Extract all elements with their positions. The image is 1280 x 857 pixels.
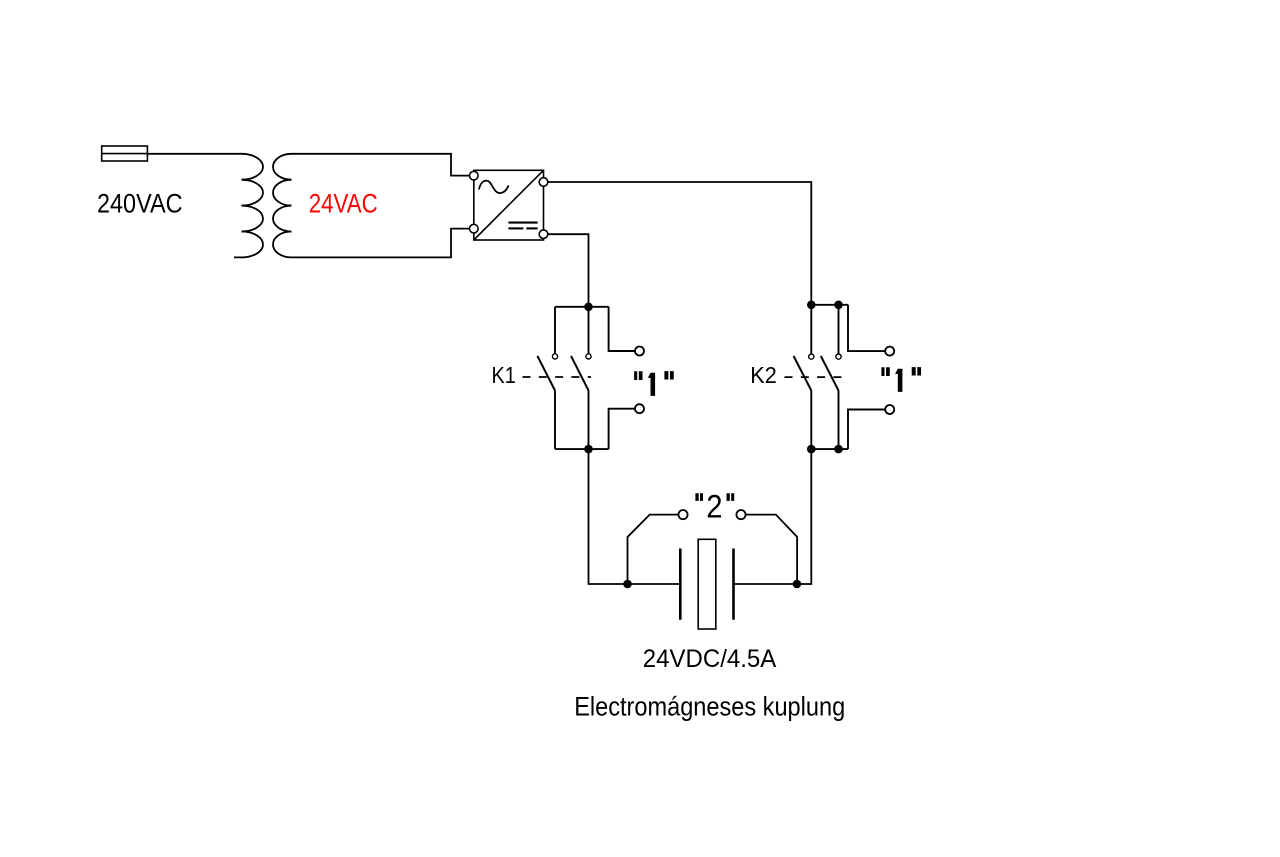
- wire secondary top to rectifier AC input: [292, 154, 470, 176]
- junction dot clutch left: [623, 580, 632, 589]
- clutch right plate: [732, 549, 735, 620]
- K1 wire to top output terminal: [609, 307, 635, 351]
- K1 top output terminal: [635, 347, 644, 356]
- wire rectifier bottom-right to K1: [548, 234, 589, 307]
- K2 top output terminal: [885, 347, 894, 356]
- K1 wire to bottom output terminal: [609, 409, 635, 449]
- K2 top junction dot 1: [807, 301, 816, 310]
- label "1" for K2: [881, 367, 921, 392]
- junction dot clutch right: [793, 580, 802, 589]
- K1 blade 2 lower wire: [588, 391, 590, 450]
- relay contacts K1: [492, 303, 674, 454]
- svg-text:Electromágneses kuplung: Electromágneses kuplung: [574, 692, 845, 722]
- svg-text:K2: K2: [750, 362, 777, 388]
- transformer T1 primary winding: [234, 154, 263, 258]
- K2 blade 2: [821, 356, 839, 391]
- clutch left plate: [679, 549, 682, 620]
- wire rectifier top-right to K2: [548, 182, 812, 305]
- K2 top bar: [811, 304, 848, 306]
- K1 top junction dot: [584, 303, 593, 312]
- K2 blade 1: [794, 356, 812, 391]
- K2 left drop wire: [810, 305, 812, 354]
- svg-text:24VAC: 24VAC: [309, 189, 378, 219]
- rectifier U1 body: [474, 170, 544, 240]
- K1 blade 1: [537, 356, 555, 391]
- switch "2" left branch: [628, 515, 679, 584]
- svg-text:24VDC/4.5A: 24VDC/4.5A: [643, 645, 777, 673]
- svg-text:240VAC: 240VAC: [97, 189, 183, 219]
- K2 mid contact circle: [836, 354, 841, 359]
- K1 blade 2: [571, 356, 589, 391]
- K1 bottom junction dot: [584, 445, 593, 454]
- K1 top bar: [555, 306, 609, 308]
- K1 coil link dashed line: [523, 376, 592, 378]
- K2 blade 2 lower wire: [838, 391, 840, 450]
- switch "2" right branch: [746, 515, 798, 584]
- svg-text:K1: K1: [492, 362, 516, 388]
- rectifier terminal bottom-right: [539, 230, 548, 239]
- K2 bottom output terminal: [885, 405, 894, 414]
- K2 blade 1 lower wire: [810, 391, 812, 450]
- svg-text:2: 2: [706, 488, 722, 524]
- K1 bottom bar: [555, 448, 609, 450]
- K1 bottom output terminal: [635, 404, 644, 413]
- K2 coil link dashed line: [785, 376, 846, 378]
- K2 mid drop wire: [838, 305, 840, 354]
- K2 wire to top output terminal: [848, 305, 885, 351]
- wire K1 down to clutch left: [589, 449, 681, 584]
- K2 top junction dot 2: [834, 301, 843, 310]
- fuse F1: [102, 146, 148, 161]
- label "1" for K1: [634, 371, 674, 396]
- rectifier terminal top-right: [539, 178, 548, 187]
- rectifier terminal top-left: [470, 171, 479, 180]
- rectifier terminal bottom-left: [470, 224, 479, 233]
- K1 blade 1 lower wire: [554, 391, 556, 450]
- K2 bottom junction dot 2: [834, 445, 843, 454]
- transformer T1 secondary winding: [273, 154, 292, 258]
- wire secondary bottom to rectifier AC input: [292, 229, 470, 258]
- K1 left drop wire: [554, 307, 556, 354]
- wire fuse to transformer primary: [147, 153, 241, 155]
- relay contacts K2: [750, 301, 921, 454]
- wire clutch right to K2: [734, 449, 812, 584]
- K2 bottom junction dot 1: [807, 445, 816, 454]
- rectifier DC symbol: [508, 223, 537, 229]
- K2 left contact circle: [809, 354, 814, 359]
- K1 mid drop wire: [588, 307, 590, 354]
- K1 mid contact circle: [586, 354, 591, 359]
- clutch core rectangle: [698, 539, 716, 629]
- rectifier AC sine symbol: [479, 181, 509, 194]
- K2 bottom bar: [811, 448, 848, 450]
- K1 left contact circle: [552, 354, 557, 359]
- switch "2" left terminal: [678, 510, 687, 519]
- switch "2" right terminal: [736, 510, 745, 519]
- label "2": [695, 493, 734, 501]
- K2 wire to bottom output terminal: [848, 410, 885, 450]
